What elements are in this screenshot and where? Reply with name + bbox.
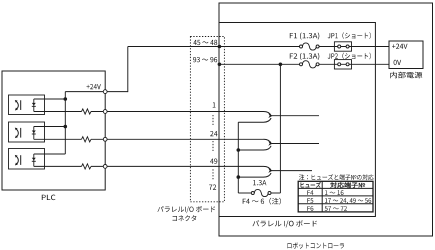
robot controller box [219,3,433,236]
wire: coupler 1 output stub [272,115,319,117]
terminal circle on PLC edge (output 3) [103,165,107,169]
transistor Q1 (PLC output) [20,100,22,110]
F1 value label [290,33,320,40]
transistor Q3 (PLC output) [20,155,22,165]
connector ellipsis (omitted pins) [212,169,214,179]
transistor Q2 (PLC output) [20,128,22,138]
fuse F4-6 [254,189,268,196]
JP2 label [328,53,371,60]
photocoupler PC3 loop [264,166,272,170]
F4-6 label [243,198,281,205]
jumper JP1 [334,42,351,51]
resistor R1 [82,109,92,114]
pin label 49 [210,159,217,164]
fuse table grid [298,181,373,212]
wire: resistor R2 to connector pin [91,138,219,140]
wire: module 2 collector to +24V bus [34,126,66,128]
terminal circle on PLC edge (output 1) [103,110,107,114]
connector ellipsis (omitted pins) [212,141,214,153]
1.3A label [253,180,266,185]
robot controller label [287,243,344,249]
+24V terminal label [392,44,407,49]
PLC output module box 2 [9,122,45,142]
note title [299,174,374,180]
junction: bus to module 1 [64,97,68,101]
fuse F1 [302,43,316,50]
pin label 45-48 [193,40,217,45]
JP1 label [328,32,371,39]
wire: pin line into coupler 2 [219,138,263,140]
junction: coupler 3 return [237,175,241,179]
table header fuse [301,182,321,188]
wire: module 1 output [34,111,82,113]
internal power supply box [389,41,423,69]
connector label line2 [173,215,197,221]
junction at controller boundary (45-48) [218,45,222,49]
wire: resistor R1 to connector pin [91,111,219,113]
wire: F1 to JP1 [319,46,389,48]
table header terminals [330,182,365,188]
resistor R3 [82,164,92,169]
connector label line1 [157,206,215,213]
fuse F2 [302,61,316,68]
photocoupler PC1 loop [264,112,272,116]
wire: +24V vertical bus [64,92,66,154]
terminal circle on PLC edge (+24V) [103,90,107,94]
terminal circle on PLC edge (output 2) [103,137,107,141]
connector ellipsis (omitted pins) [212,115,214,126]
diode D1 branch [33,99,35,112]
wire: pin line into coupler 3 [219,165,263,167]
+24V label [87,84,101,89]
wire: fuse F4-6 to 0V line [271,192,280,194]
diode D3 branch [33,154,35,166]
pin label 1 [213,102,216,107]
wire: coupler 2 output stub [272,143,319,145]
wire: module 2 output [34,138,82,140]
wire: module 1 collector to +24V bus [34,98,66,100]
pin label 24 [210,131,217,136]
wire: module 3 output [34,165,82,167]
pin label 72 [209,185,216,190]
table row F5 [307,198,313,203]
table row F6 [307,206,313,211]
wire: F2 to JP2 [319,63,389,65]
wire: resistor R3 to connector pin [91,165,219,167]
PLC box [2,71,105,190]
wire: +24V riser to pins 45-48 [127,47,129,93]
wire: module 3 collector to +24V bus [34,153,66,155]
jumper JP2 [334,60,351,69]
parallel I/O board label [253,220,318,227]
diode D2 branch [33,127,35,140]
wire: 0V line to fuse F2 [219,63,299,65]
photocoupler PC2 loop [264,139,272,143]
junction: F4-6 return bus joins 0V [279,63,283,67]
junction: coupler 2 return [237,148,241,152]
PLC output module box 3 [9,149,45,170]
wire: pin line into coupler 1 [219,111,263,113]
parallel I/O connector (dashed box) [190,37,224,202]
wire: coupler return bus [237,122,239,193]
wire: return bus to fuse F4-6 [238,192,251,194]
wire: +24V rail horizontal [65,91,128,93]
F2 value label [290,53,320,60]
wire: coupler 3 output stub [272,170,312,172]
PLC output module box 1 [9,95,45,115]
junction: bus to module 2 [64,125,68,129]
junction at controller boundary (93-96) [218,63,222,67]
wire: pins 45-48 to fuse F1 [128,46,300,48]
pin label 93-96 [193,57,217,62]
resistor R2 [82,137,92,142]
table row F4 [307,190,313,195]
PLC label [42,195,56,201]
internal power supply label [390,72,422,79]
parallel I/O board box [219,23,375,217]
0V terminal label [394,60,402,65]
